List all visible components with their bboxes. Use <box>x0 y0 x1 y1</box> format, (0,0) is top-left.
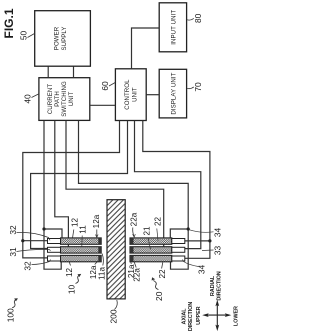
label 32 bottom <box>22 260 50 271</box>
label 22a bottom <box>132 262 141 282</box>
clamp square 34 bottom <box>172 256 185 261</box>
label 100 arrow <box>5 298 18 322</box>
label 80 <box>187 13 203 23</box>
label 31 <box>8 247 51 257</box>
svg-text:200: 200 <box>108 309 118 323</box>
svg-text:22: 22 <box>153 217 162 227</box>
shaft 200 <box>107 200 125 299</box>
radial direction arrow (vertical) <box>216 303 218 328</box>
label 11 top <box>79 225 88 247</box>
svg-text:12: 12 <box>65 268 74 278</box>
label 70 <box>187 82 203 92</box>
label 22 bottom <box>158 262 167 278</box>
svg-text:10: 10 <box>66 285 76 295</box>
svg-text:INPUT UNIT: INPUT UNIT <box>170 10 177 45</box>
svg-text:20: 20 <box>154 291 164 301</box>
svg-text:100: 100 <box>5 308 15 322</box>
wire PS-CPS left <box>47 67 49 78</box>
label 21a bottom <box>127 262 136 279</box>
svg-text:11a: 11a <box>97 267 106 280</box>
label 32 top <box>8 225 50 240</box>
clamp square 34 top <box>172 239 185 244</box>
svg-text:DISPLAY UNIT: DISPLAY UNIT <box>170 72 177 114</box>
electrode bar 22 top-right <box>130 238 172 244</box>
svg-text:22a: 22a <box>129 212 138 226</box>
label 10 arrow <box>66 274 81 294</box>
svg-text:60: 60 <box>100 81 110 91</box>
clamp square 32 bottom <box>48 256 61 261</box>
label 22a top <box>129 212 138 237</box>
label 22 top <box>153 217 162 241</box>
clamp square 33 <box>172 247 185 252</box>
svg-text:22: 22 <box>158 269 167 279</box>
wire CPS out1 to electrode 12 pair <box>42 121 62 270</box>
label 12a top <box>92 214 101 237</box>
wire CONTROL-DISPLAY <box>146 94 159 96</box>
svg-text:34: 34 <box>196 265 206 275</box>
label 60 <box>100 81 115 91</box>
clamp square 31 <box>48 247 61 252</box>
wire CPS out2 to electrode 11 <box>55 121 69 248</box>
svg-text:80: 80 <box>193 13 203 23</box>
wire CTRL out4 to clamp 34 pair <box>143 121 212 259</box>
label 33 <box>202 246 222 256</box>
svg-text:33: 33 <box>212 246 222 256</box>
input unit U80 box <box>159 3 186 52</box>
wire CPS out3 to electrode 21 <box>66 121 164 248</box>
control unit U60 box <box>115 69 146 121</box>
svg-text:32: 32 <box>22 261 32 271</box>
electrode bar 21 right <box>130 247 172 253</box>
power supply U50 box <box>35 11 91 66</box>
label 40 <box>22 94 38 104</box>
svg-text:UPPER: UPPER <box>196 306 202 325</box>
svg-text:12a: 12a <box>92 214 101 228</box>
label 12a bottom <box>89 261 98 279</box>
wire CTRL out2 to clamp 31 <box>31 121 128 249</box>
label 20 arrow <box>152 277 164 301</box>
svg-text:34: 34 <box>212 228 222 238</box>
wire CPS out4 to electrode 22 pair <box>79 121 190 270</box>
label 12 bottom <box>65 262 74 277</box>
axial direction arrow (horizontal) <box>205 314 229 316</box>
svg-text:31: 31 <box>8 247 18 257</box>
wire INPUT-CONTROL <box>132 28 160 69</box>
wire PS-CPS right <box>73 67 75 78</box>
label 12 top <box>71 218 80 238</box>
electrode bar 12 bottom-left <box>61 255 102 261</box>
axis compass <box>181 271 239 331</box>
label 50 <box>18 31 34 41</box>
current path switching unit U40 box <box>39 78 90 121</box>
electrode bar 22 bottom-right <box>130 255 172 261</box>
svg-text:21: 21 <box>142 226 151 236</box>
svg-text:50: 50 <box>18 31 28 41</box>
label 34 top <box>190 228 223 238</box>
svg-text:POWERSUPPLY: POWERSUPPLY <box>54 26 68 50</box>
label 21 top <box>142 226 151 249</box>
label 11a bottom <box>97 254 106 281</box>
label 200 <box>108 300 118 323</box>
svg-text:70: 70 <box>193 82 203 92</box>
svg-text:40: 40 <box>22 94 32 104</box>
svg-text:FIG.1: FIG.1 <box>2 8 16 38</box>
clamp square 32 top <box>48 239 61 244</box>
svg-text:32: 32 <box>8 225 18 235</box>
label 34 bottom <box>183 260 207 275</box>
wire CPS-CONTROL <box>90 104 115 106</box>
svg-text:11: 11 <box>79 225 88 234</box>
display unit U70 box <box>159 69 186 118</box>
wire CTRL out1 to clamp 32 pair <box>21 121 119 258</box>
wire CTRL out3 to clamp 33 <box>135 121 201 249</box>
electrode bar 12 top-left <box>61 238 102 244</box>
svg-text:22a: 22a <box>132 268 141 282</box>
electrode bar 11 left <box>61 247 102 253</box>
svg-text:LOWER: LOWER <box>233 306 239 326</box>
